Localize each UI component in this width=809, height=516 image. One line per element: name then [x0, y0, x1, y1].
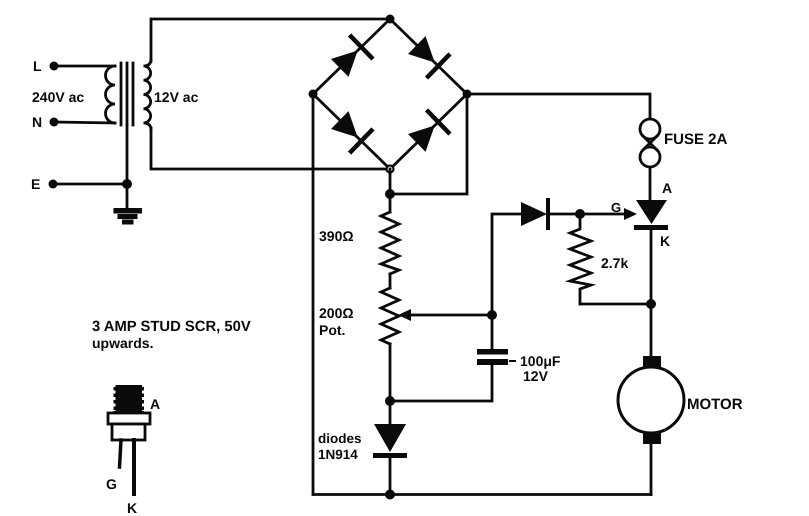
SCR package stud (anode) [114, 385, 145, 414]
leader dash before 100uF [510, 360, 515, 362]
SCR gate arrow [580, 208, 637, 220]
bridge arm bottom-right wire [390, 94, 467, 169]
transformer T1 primary winding [106, 66, 115, 123]
SCR package body [112, 424, 145, 440]
transformer T1 core [121, 63, 133, 125]
wire pot bottom to junction [389, 344, 392, 424]
wire SCR cathode down to motor [650, 229, 653, 357]
potentiometer wiper arrow [398, 309, 492, 321]
svg-text:N: N [32, 114, 42, 130]
transformer T1 secondary winding [144, 59, 152, 130]
SCR Q1 thyristor [634, 200, 668, 230]
wire bridge bottom to junction [389, 169, 392, 194]
svg-text:12V: 12V [523, 368, 549, 384]
label 200 ohm Pot. [319, 305, 354, 338]
svg-text:K: K [127, 500, 137, 516]
junction gate / 2.7k [575, 209, 585, 219]
junction SCR cathode / 2.7k [646, 299, 656, 309]
wire right node to fuse [467, 94, 650, 119]
bridge diode D3 (left to bottom) [331, 111, 371, 151]
bridge arm top-right wire [390, 19, 467, 94]
svg-text:diodes: diodes [318, 431, 362, 446]
resistor R1 390 ohm [381, 212, 399, 274]
label 100uF 12V [520, 353, 561, 384]
svg-text:12V ac: 12V ac [154, 89, 199, 105]
junction chain / capacitor return [385, 396, 395, 406]
svg-text:3 AMP STUD SCR, 50V: 3 AMP STUD SCR, 50V [92, 319, 251, 335]
svg-text:390Ω: 390Ω [319, 228, 354, 244]
svg-text:2.7k: 2.7k [601, 255, 628, 271]
note text 3 AMP STUD SCR [92, 319, 251, 351]
wire motor bottom to rail [650, 444, 653, 495]
svg-text:L: L [33, 58, 42, 74]
capacitor C1 [477, 349, 508, 365]
wire fuse to SCR anode [649, 167, 652, 201]
svg-text:FUSE 2A: FUSE 2A [664, 131, 728, 148]
trigger diode D5 1N914 [521, 200, 580, 228]
bridge diode D2 (top to right) [408, 36, 448, 76]
SCR package gate lead [120, 440, 122, 467]
junction wiper / capacitor [487, 310, 497, 320]
wire between R1 and pot [389, 274, 392, 288]
junction bottom rail [385, 490, 395, 500]
wire E to ground junction [53, 183, 128, 186]
wire N to transformer primary bottom [54, 122, 115, 123]
svg-text:G: G [106, 476, 117, 492]
fuse F1 [640, 119, 660, 167]
junction below bridge [385, 189, 395, 199]
bridge diode D1 (left to top) [331, 37, 371, 77]
svg-text:240V ac: 240V ac [32, 89, 84, 105]
svg-text:E: E [31, 176, 40, 192]
svg-text:Pot.: Pot. [319, 322, 345, 338]
svg-text:200Ω: 200Ω [319, 305, 354, 321]
diode D6 1N914 [373, 424, 407, 458]
svg-text:K: K [660, 233, 670, 249]
wire right node down and left to junction [390, 94, 467, 194]
potentiometer R3 200 ohm track [381, 288, 399, 344]
node E terminal [31, 176, 58, 192]
svg-text:A: A [150, 396, 160, 412]
wire junction down to capacitor [491, 315, 494, 350]
svg-text:A: A [662, 180, 672, 196]
bridge arm left-bottom wire [313, 94, 390, 169]
bridge node left [309, 90, 318, 99]
motor M1 [618, 356, 684, 444]
junction E / ground [122, 179, 132, 189]
wire L to transformer primary top [54, 65, 115, 68]
svg-text:upwards.: upwards. [92, 335, 153, 351]
wire core to ground symbol [126, 125, 129, 210]
resistor R2 2.7k [570, 214, 591, 304]
wire 2.7k bottom to SCR cathode line [580, 303, 651, 306]
svg-text:1N914: 1N914 [318, 447, 358, 462]
node N terminal [32, 114, 59, 130]
wire capacitor bottom to divider chain [390, 365, 492, 401]
bridge node bottom [387, 166, 394, 173]
node L terminal [33, 58, 59, 74]
wire secondary bottom to bridge bottom [151, 128, 390, 169]
label diodes 1N914 [318, 431, 362, 462]
wire wiper junction up to trigger diode [492, 214, 521, 315]
svg-text:MOTOR: MOTOR [687, 396, 743, 413]
bridge diode D4 (bottom to right) [408, 112, 448, 152]
ground symbol [114, 208, 143, 225]
wire diode to bottom rail [389, 458, 392, 495]
SCR package cathode lead [132, 440, 136, 494]
bridge node right [463, 90, 472, 99]
wire junction to 390 ohm [389, 194, 392, 212]
wire secondary top to bridge top [151, 19, 390, 61]
SCR package flange [108, 413, 150, 424]
bottom rail [313, 493, 651, 496]
svg-text:100μF: 100μF [520, 353, 561, 369]
bridge arm left-top wire [313, 19, 390, 94]
bridge node top [386, 15, 395, 24]
left rail from bridge left node down [312, 94, 315, 495]
